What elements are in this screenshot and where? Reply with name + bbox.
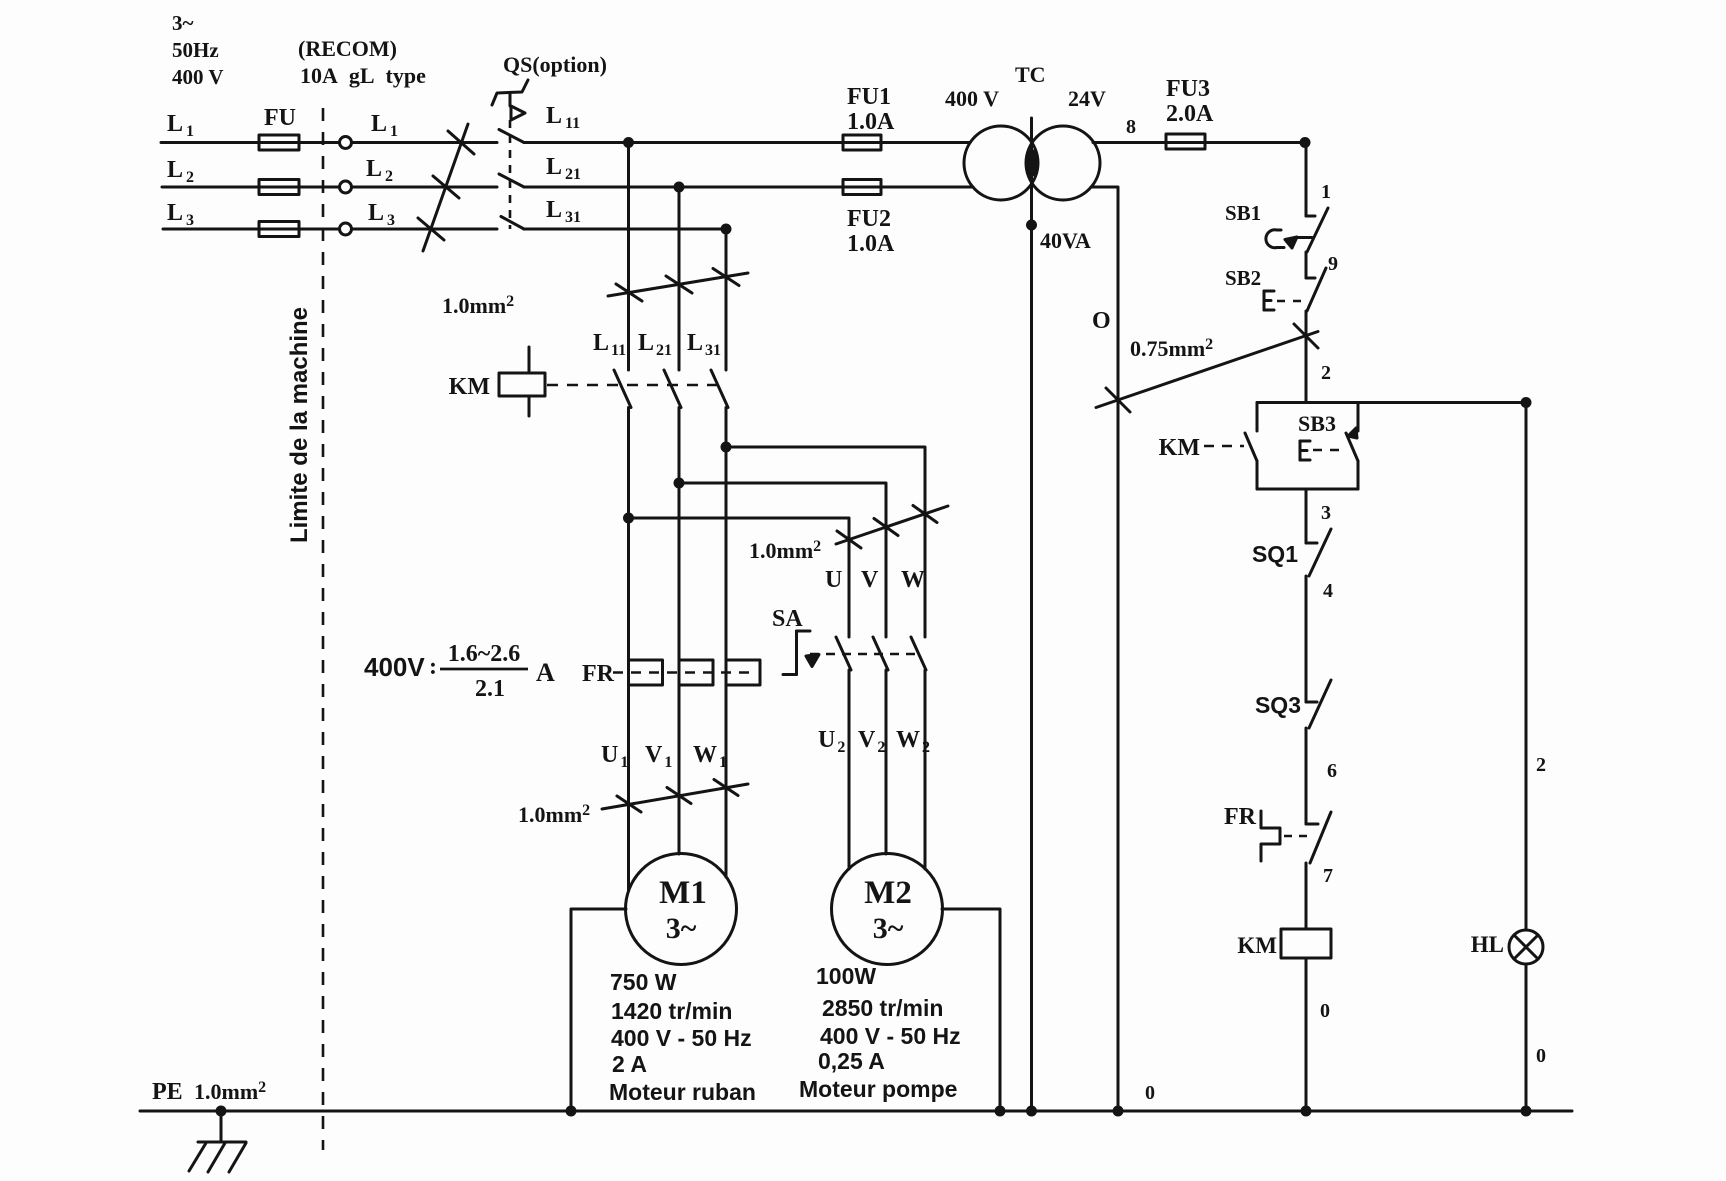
svg-text:3~: 3~	[666, 912, 697, 945]
svg-text:SB3: SB3	[1298, 411, 1336, 436]
svg-text:6: 6	[1327, 760, 1337, 782]
svg-text:KM: KM	[449, 374, 490, 400]
svg-text:0: 0	[1320, 1000, 1330, 1022]
svg-text:9: 9	[1328, 253, 1338, 275]
svg-text:2.1: 2.1	[475, 676, 505, 702]
svg-text:1.0A: 1.0A	[847, 231, 895, 257]
svg-text:FR: FR	[582, 661, 615, 687]
svg-text:8: 8	[1126, 116, 1136, 138]
svg-text:24V: 24V	[1068, 86, 1106, 111]
svg-text:2: 2	[1536, 754, 1546, 776]
svg-text:FR: FR	[1224, 804, 1257, 830]
svg-text:SB2: SB2	[1225, 266, 1261, 290]
svg-text:400V: 400V	[364, 652, 425, 682]
svg-text:SB1: SB1	[1225, 201, 1261, 225]
svg-text:KM: KM	[1159, 435, 1200, 461]
svg-text:400 V - 50 Hz: 400 V - 50 Hz	[820, 1023, 961, 1049]
svg-text:7: 7	[1323, 865, 1333, 887]
svg-text:TC: TC	[1015, 62, 1046, 87]
svg-text:400 V - 50 Hz: 400 V - 50 Hz	[611, 1025, 752, 1051]
svg-text:3~: 3~	[172, 11, 194, 35]
svg-text:1: 1	[1321, 181, 1331, 203]
svg-text:3: 3	[1321, 502, 1331, 524]
svg-text:1.0mm2: 1.0mm2	[518, 802, 590, 827]
svg-text::: :	[429, 654, 437, 680]
svg-text:M1: M1	[659, 875, 707, 911]
svg-text:U: U	[825, 567, 842, 593]
svg-text:O: O	[1092, 308, 1111, 334]
svg-text:0: 0	[1145, 1082, 1155, 1104]
svg-text:(RECOM): (RECOM)	[298, 36, 397, 61]
svg-text:SA: SA	[772, 606, 803, 632]
svg-text:400 V: 400 V	[172, 65, 224, 89]
svg-text:1.0A: 1.0A	[847, 109, 895, 135]
svg-text:50Hz: 50Hz	[172, 38, 219, 62]
svg-text:SQ3: SQ3	[1255, 692, 1301, 718]
svg-text:A: A	[536, 658, 555, 687]
svg-text:100W: 100W	[816, 963, 876, 989]
svg-text:SQ1: SQ1	[1252, 541, 1298, 567]
svg-text:2 A: 2 A	[612, 1051, 647, 1077]
svg-text:2850 tr/min: 2850 tr/min	[822, 995, 943, 1021]
svg-text:0.75mm2: 0.75mm2	[1130, 336, 1213, 361]
svg-text:FU3: FU3	[1166, 76, 1210, 102]
svg-text:400 V: 400 V	[945, 86, 999, 111]
svg-text:750 W: 750 W	[610, 969, 677, 995]
svg-text:3~: 3~	[873, 912, 904, 945]
svg-text:W: W	[901, 567, 925, 593]
svg-text:2.0A: 2.0A	[1166, 101, 1214, 127]
svg-text:FU: FU	[264, 105, 296, 131]
svg-text:1.0mm2: 1.0mm2	[194, 1079, 266, 1104]
svg-text:QS(option): QS(option)	[503, 52, 607, 77]
svg-text:0: 0	[1536, 1045, 1546, 1067]
svg-text:M2: M2	[864, 875, 912, 911]
svg-text:KM: KM	[1237, 933, 1277, 958]
svg-text:FU1: FU1	[847, 84, 891, 110]
svg-text:Limite de la machine: Limite de la machine	[286, 307, 313, 543]
svg-text:10A gL type: 10A gL type	[300, 63, 426, 88]
svg-text:PE: PE	[152, 1079, 183, 1105]
svg-text:1.6~2.6: 1.6~2.6	[448, 641, 520, 667]
svg-text:0,25 A: 0,25 A	[818, 1048, 885, 1074]
svg-text:1.0mm2: 1.0mm2	[442, 293, 514, 318]
svg-text:HL: HL	[1471, 932, 1504, 957]
svg-text:V: V	[861, 567, 879, 593]
svg-text:Moteur ruban: Moteur ruban	[609, 1079, 756, 1105]
svg-text:FU2: FU2	[847, 206, 891, 232]
svg-text:1.0mm2: 1.0mm2	[749, 538, 821, 563]
svg-text:Moteur pompe: Moteur pompe	[799, 1076, 957, 1102]
svg-text:1420 tr/min: 1420 tr/min	[611, 998, 732, 1024]
svg-text:4: 4	[1323, 580, 1333, 602]
svg-text:2: 2	[1321, 362, 1331, 384]
svg-text:40VA: 40VA	[1040, 228, 1091, 253]
